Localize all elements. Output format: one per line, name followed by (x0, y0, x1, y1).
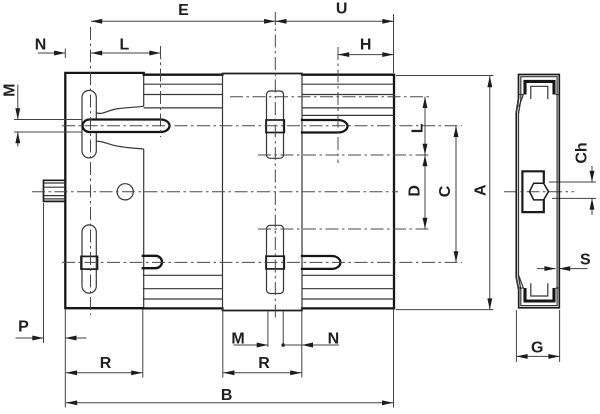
top-left screw rod (83, 119, 170, 132)
svg-text:R: R (258, 355, 270, 372)
dimension C (vertical) (437, 126, 456, 263)
side view hexagon (530, 183, 549, 200)
top-right screw rod (302, 120, 348, 133)
main horizontal centerline (32, 191, 398, 193)
flange (left block) (65, 73, 143, 308)
svg-text:G: G (531, 339, 543, 356)
side view top inner slot (531, 86, 548, 99)
rod end centerline left (160, 46, 162, 137)
svg-text:N: N (35, 37, 47, 54)
hole circle on flange (117, 184, 133, 200)
Ch extensions (549, 182, 596, 198)
N top tick at body edge (64, 49, 66, 59)
rod end centerline right (H extension) (337, 47, 339, 163)
svg-text:L: L (120, 37, 130, 54)
dimension L top (91, 37, 161, 54)
svg-text:R: R (100, 355, 112, 372)
side view outer profile (516, 75, 559, 308)
flange bottom slot nut (81, 256, 98, 269)
svg-text:L: L (409, 123, 426, 133)
bottom-left screw stub (143, 256, 162, 268)
side view nut block (522, 171, 543, 212)
dimension R right (223, 355, 301, 373)
dimension A (vertical) (473, 76, 490, 310)
flange right edge bottom extension (142, 310, 144, 378)
middle block top slot (267, 91, 284, 158)
middle block top nut (266, 120, 284, 133)
side view bottom inner slot (531, 283, 548, 296)
dimension E (91, 2, 275, 21)
barrel tie-rod lines top (144, 83, 394, 85)
svg-text:N: N (328, 331, 340, 348)
middle block left edge bottom extension (222, 312, 224, 378)
barrel right edge (393, 75, 395, 309)
svg-text:M: M (2, 84, 19, 97)
svg-text:S: S (580, 252, 591, 269)
side view inner wall line (519, 77, 558, 306)
top screw centerline (62, 125, 462, 127)
body left edge bottom extension (64, 310, 66, 408)
dimension D (vertical) (407, 155, 425, 229)
svg-text:B: B (221, 387, 233, 404)
dimension M bottom (arrow + dot) (231, 331, 339, 348)
svg-text:H: H (360, 37, 372, 54)
dimension H (338, 37, 394, 55)
svg-text:M: M (231, 331, 244, 348)
side view top-left chamfer (516, 95, 523, 114)
side view bottom T-slot (dark) (525, 288, 554, 301)
svg-text:U: U (336, 1, 348, 18)
bottom screw centerline (62, 261, 462, 263)
G extensions (516, 310, 559, 362)
slot edge bottom extensions for M (268, 312, 283, 348)
tear break line lower (97, 141, 144, 149)
A top extension (396, 75, 494, 77)
dimension S (outside arrows) (537, 252, 591, 269)
barrel reference dash-dot line (230, 96, 431, 98)
dimension M left (vertical, outside arrows) (2, 84, 19, 147)
middle block right edge bottom extension (301, 312, 303, 378)
side view bottom-left chamfer (516, 276, 523, 291)
middle block bottom nut (266, 256, 284, 269)
M left extensions (14, 120, 82, 133)
lower slot-end reference line (258, 228, 431, 230)
dimension N bottom (302, 331, 339, 348)
tear break line upper (97, 106, 144, 113)
middle block vertical centerline (274, 12, 276, 318)
svg-text:E: E (178, 2, 189, 19)
left flange vertical centerline (90, 27, 92, 315)
barrel tie-rod lines bottom (143, 298, 394, 300)
svg-text:Ch: Ch (573, 142, 590, 163)
P left extension (43, 203, 45, 343)
dimension P (outside arrows) (16, 319, 87, 339)
barrel top outline (144, 74, 394, 76)
svg-text:C: C (437, 185, 454, 197)
barrel bottom outline (143, 307, 394, 309)
dimension B (66, 387, 393, 404)
svg-text:P: P (18, 319, 29, 336)
flange top slot (82, 90, 96, 158)
flange bottom slot (82, 225, 96, 293)
dimension R left (66, 355, 143, 373)
dimension N top (35, 37, 66, 54)
middle block bottom slot (267, 225, 284, 293)
upper slot-end reference line (258, 154, 431, 156)
right edge bottom extension (393, 310, 395, 408)
dimension Ch (vertical, outside arrows) (573, 142, 592, 215)
svg-text:D: D (407, 185, 424, 197)
dimension U (275, 1, 393, 22)
bottom-right screw rod (302, 256, 340, 269)
side view bottom notch closures (518, 287, 559, 289)
side view top T-slot (dark) (525, 81, 554, 94)
right edge top extension (393, 14, 395, 73)
dimension L right (vertical) (409, 97, 426, 155)
A bottom extension (396, 309, 494, 311)
svg-text:A: A (473, 184, 490, 196)
dimension G (516, 339, 559, 356)
threaded boss on left edge (44, 180, 66, 201)
side view top notch closures (518, 94, 559, 96)
middle block (223, 74, 303, 311)
